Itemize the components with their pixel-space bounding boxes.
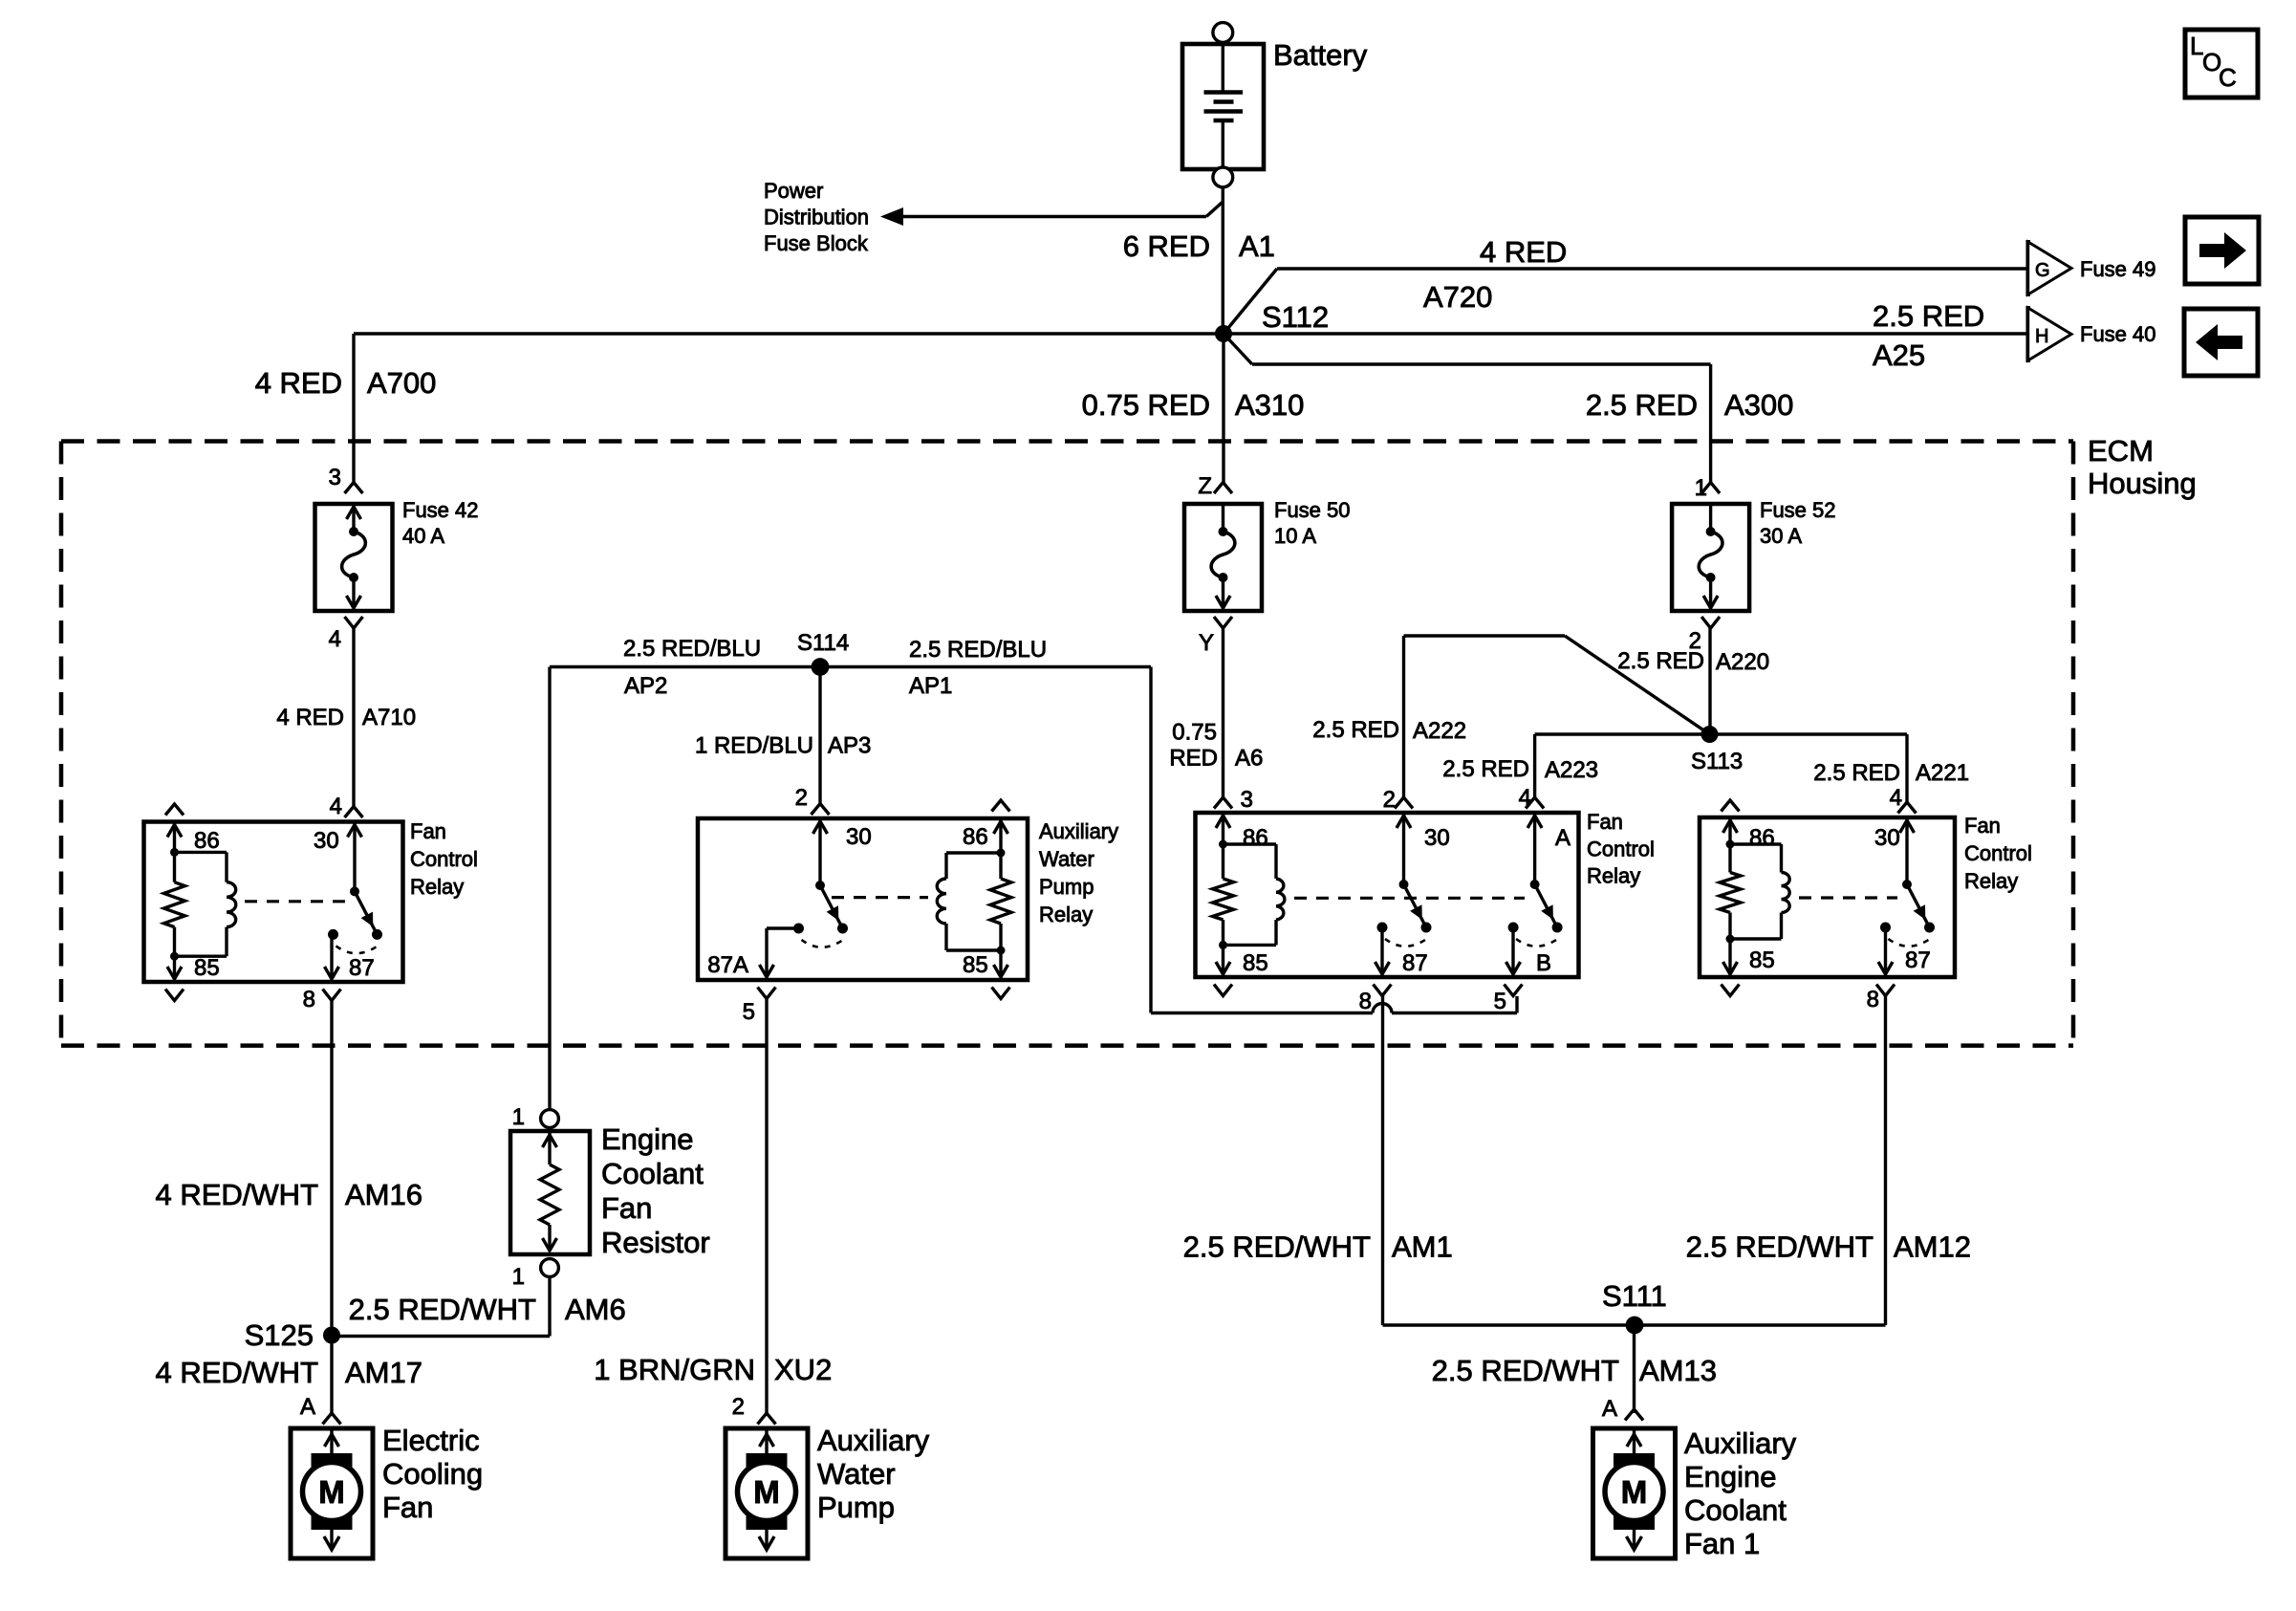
wire 4 RED A710 (352, 628, 355, 807)
label 1 RED/BLU AP3 (695, 733, 871, 759)
svg-text:85: 85 (1243, 950, 1268, 976)
svg-text:Control: Control (1964, 841, 2032, 865)
label 1 BRN/GRN XU2 (594, 1353, 832, 1386)
svg-text:Battery: Battery (1273, 38, 1368, 72)
auxiliary water pump relay label (1039, 819, 1118, 926)
svg-text:1: 1 (512, 1104, 525, 1130)
connector pin 4 of fan control relay 2 (1519, 785, 1544, 811)
fan control relay 1 label (410, 819, 478, 899)
wire 2.5 RED/BLU AP1 (820, 667, 1517, 1013)
svg-text:8: 8 (1359, 989, 1372, 1014)
LOC legend box (2185, 30, 2258, 98)
wire 2.5 RED/BLU AP2 upper (550, 667, 820, 1110)
motor auxiliary engine coolant fan 1 body (1593, 1428, 1676, 1558)
engine coolant fan resistor body (510, 1131, 590, 1254)
svg-text:Y: Y (1199, 630, 1214, 656)
svg-text:3: 3 (1241, 787, 1253, 813)
label 4 RED A710 (276, 705, 416, 730)
fan control relay 3 label (1964, 814, 2032, 893)
fuse F52 element (1699, 506, 1722, 608)
svg-text:Fuse 49: Fuse 49 (2080, 257, 2156, 281)
label 2.5 RED/BLU AP1 (909, 637, 1047, 699)
battery B+ terminal (1213, 23, 1233, 43)
fuse F50 body (1184, 504, 1262, 611)
svg-text:AP1: AP1 (909, 673, 952, 699)
fan control relay 3 case connector marks (1722, 800, 1740, 996)
wire 2.5 RED A300 (1224, 334, 1711, 483)
fuse F42 body (315, 504, 393, 611)
label 4 RED/WHT AM16 (156, 1178, 422, 1211)
svg-text:4 RED: 4 RED (255, 366, 342, 400)
svg-text:AP3: AP3 (828, 733, 871, 759)
wire to power distribution fuse block (880, 187, 1223, 226)
wire 2.5 RED/WHT to S111 (1383, 1323, 1886, 1326)
engine coolant fan resistor element (540, 1133, 559, 1251)
svg-text:2.5 RED: 2.5 RED (1442, 756, 1529, 782)
connector pin 8 of fan control relay 3 (1867, 985, 1895, 1013)
fuse F50 element (1211, 506, 1235, 608)
fan control relay 2 pin 30 wire (1397, 815, 1411, 884)
svg-text:87: 87 (349, 955, 375, 981)
svg-text:6 RED: 6 RED (1123, 229, 1210, 263)
fuse F42 label (402, 498, 479, 548)
wire 6 RED A1 (1222, 202, 1224, 334)
svg-text:A310: A310 (1235, 388, 1304, 422)
svg-text:2: 2 (795, 785, 808, 811)
auxiliary water pump relay case connector marks (992, 800, 1010, 999)
svg-text:87A: 87A (707, 952, 748, 978)
svg-text:AM16: AM16 (345, 1178, 422, 1211)
svg-text:0.75 RED: 0.75 RED (1082, 388, 1210, 422)
svg-text:Fuse 52: Fuse 52 (1760, 498, 1836, 522)
fan control relay 3 pin labels 86 85 (1749, 825, 1775, 973)
connector pin 4 of fan control relay 1 (330, 794, 363, 819)
svg-text:2.5 RED: 2.5 RED (1813, 760, 1900, 786)
svg-text:1 BRN/GRN: 1 BRN/GRN (594, 1353, 755, 1386)
svg-text:2: 2 (732, 1394, 745, 1420)
svg-text:30: 30 (846, 824, 872, 850)
svg-text:AM13: AM13 (1639, 1354, 1717, 1387)
svg-text:Fuse 40: Fuse 40 (2080, 322, 2156, 346)
fan control relay 2 body (1196, 813, 1579, 977)
connector pin 1 of fuse 52 (1695, 475, 1720, 501)
svg-text:AM17: AM17 (345, 1356, 422, 1389)
svg-text:A223: A223 (1545, 757, 1598, 783)
wire 2.5 RED/WHT AM1 (1381, 996, 1384, 1326)
auxiliary water pump relay pin 30 wire (813, 820, 828, 885)
label 0.75 RED A6 (1169, 720, 1263, 772)
svg-text:8: 8 (303, 987, 315, 1012)
fan control relay 2 main switch (1377, 880, 1432, 947)
svg-text:40 A: 40 A (402, 524, 444, 548)
ECM housing boundary (61, 442, 2073, 1046)
svg-text:A: A (300, 1394, 315, 1420)
svg-text:A6: A6 (1235, 746, 1263, 772)
auxiliary water pump relay pin labels 86 85 (963, 824, 988, 978)
fan control relay 1 actuation link (245, 900, 347, 903)
junction S125 (323, 1327, 340, 1344)
fuse F52 label (1760, 498, 1836, 548)
fan control relay 2 second switch (1508, 880, 1563, 947)
fan control relay 2 case connector marks (1214, 985, 1232, 996)
svg-text:A720: A720 (1423, 280, 1492, 314)
svg-text:Electric: Electric (382, 1424, 480, 1457)
fuse F52 body (1672, 504, 1749, 611)
svg-text:Control: Control (1587, 837, 1655, 860)
fan control relay 3 pin 30 wire (1900, 819, 1915, 884)
off-page arrow left (2184, 309, 2258, 376)
svg-text:H: H (2035, 326, 2048, 347)
svg-text:Z: Z (1198, 473, 1212, 499)
wire 2.5 RED A221 (1710, 734, 1908, 802)
svg-text:86: 86 (194, 828, 220, 854)
connector pin 3 of fuse 42 (329, 465, 363, 493)
svg-text:4: 4 (329, 626, 341, 652)
wire 0.75 RED A6 (1222, 628, 1224, 797)
svg-text:A300: A300 (1724, 388, 1793, 422)
off-page arrow right (2185, 217, 2259, 284)
label 2.5 RED/WHT AM13 (1432, 1354, 1717, 1387)
svg-text:Relay: Relay (410, 875, 464, 899)
connector pin 5 of fan control relay 2 (1494, 985, 1523, 1015)
svg-text:4 RED/WHT: 4 RED/WHT (156, 1356, 319, 1389)
wire 2.5 RED/WHT AM6 (332, 1277, 550, 1337)
svg-text:S125: S125 (245, 1318, 314, 1352)
fuse F50 label (1274, 498, 1351, 548)
svg-text:30 A: 30 A (1760, 524, 1802, 548)
motor electric cooling fan symbol (303, 1430, 361, 1550)
connector pin 4 of fan control relay 3 (1890, 785, 1917, 814)
junction S113 (1701, 726, 1719, 743)
fan control relay 1 switch (328, 886, 382, 953)
wire 2.5 RED/WHT AM13 (1633, 1325, 1635, 1413)
svg-text:Fan: Fan (601, 1191, 652, 1225)
svg-text:4: 4 (330, 794, 342, 819)
svg-text:A: A (1555, 825, 1570, 851)
wire 2.5 RED A222 (1404, 636, 1710, 797)
motor electric cooling fan label (382, 1424, 483, 1524)
connector pin 8 of fan control relay 2 (1359, 985, 1392, 1015)
svg-text:S114: S114 (797, 630, 849, 656)
svg-text:2.5 RED/BLU: 2.5 RED/BLU (623, 636, 761, 662)
svg-text:85: 85 (194, 955, 220, 981)
fan control relay 2 pin 87 wire (1375, 927, 1390, 974)
connector triangle G to Fuse 49 (2028, 240, 2071, 296)
connector pin Z of fuse 50 (1198, 473, 1232, 499)
connector pin 4 of fuse 42 (329, 617, 363, 652)
fan control relay 2 actuation link (1294, 897, 1525, 900)
svg-text:Coolant: Coolant (601, 1157, 704, 1190)
wire 1 BRN/GRN XU2 (765, 999, 768, 1414)
svg-text:Fuse Block: Fuse Block (764, 231, 869, 255)
svg-text:A220: A220 (1716, 649, 1769, 675)
fan control relay 1 case connector marks (165, 804, 184, 1001)
svg-text:Distribution: Distribution (764, 206, 869, 229)
motor auxiliary water pump body (726, 1428, 808, 1558)
svg-text:Auxiliary: Auxiliary (817, 1424, 930, 1457)
svg-text:85: 85 (1749, 947, 1775, 973)
fan control relay 2 pin A wire (1527, 815, 1542, 884)
svg-text:86: 86 (963, 824, 988, 850)
label 4 RED/WHT AM17 (156, 1356, 422, 1389)
svg-text:A25: A25 (1873, 338, 1925, 372)
connector pin 5 of auxiliary water pump relay (743, 988, 776, 1026)
wire 4 RED A720 (1224, 269, 2027, 334)
label 4 RED A700 (255, 366, 437, 400)
connector pin 2 of fan control relay 2 (1383, 787, 1413, 813)
svg-text:Engine: Engine (601, 1122, 694, 1156)
svg-text:2.5 RED: 2.5 RED (1617, 648, 1704, 674)
wire 1 RED/BLU AP3 (818, 667, 821, 804)
svg-text:A: A (1602, 1396, 1617, 1422)
wire 4 RED/WHT AM17 (330, 1337, 333, 1414)
label 2.5 RED A25 (1873, 299, 1984, 372)
motor auxiliary water pump symbol (738, 1430, 796, 1550)
svg-text:5: 5 (1494, 989, 1506, 1014)
auxiliary water pump relay switch (793, 881, 848, 947)
ECM housing label (2088, 434, 2197, 500)
svg-text:30: 30 (314, 828, 339, 854)
svg-text:1: 1 (512, 1264, 525, 1290)
label 2.5 RED A223 (1442, 756, 1598, 783)
connector pin A of electric cooling fan (300, 1394, 341, 1425)
svg-text:2.5 RED/WHT: 2.5 RED/WHT (1432, 1354, 1619, 1387)
svg-text:M: M (318, 1474, 345, 1510)
fan control relay 3 pin labels 30 87 (1874, 825, 1931, 973)
svg-text:1 RED/BLU: 1 RED/BLU (695, 733, 813, 759)
connector pin 2 of fuse 52 (1689, 617, 1720, 654)
svg-text:Water: Water (1039, 847, 1094, 871)
svg-text:3: 3 (329, 465, 341, 490)
svg-text:B: B (1536, 950, 1551, 976)
svg-text:RED: RED (1169, 746, 1218, 772)
fan control relay 1 pin 30 wire (348, 824, 362, 892)
auxiliary water pump relay actuation link (832, 896, 928, 899)
motor auxiliary engine coolant fan 1 label (1684, 1426, 1797, 1560)
fan control relay 1 pin labels 86 85 (194, 828, 220, 981)
label 2.5 RED A222 (1312, 717, 1466, 744)
svg-text:M: M (1621, 1474, 1648, 1510)
svg-text:Fan: Fan (1964, 814, 2001, 838)
fan control relay 3 coil (1720, 819, 1789, 974)
svg-text:2.5 RED: 2.5 RED (1873, 299, 1984, 333)
auxiliary water pump relay pin labels 30 87A (707, 824, 871, 978)
svg-text:Pump: Pump (817, 1491, 895, 1524)
svg-text:AM6: AM6 (565, 1293, 626, 1326)
svg-text:Auxiliary: Auxiliary (1039, 819, 1118, 843)
svg-text:Fan: Fan (1587, 810, 1623, 834)
fan control relay 2 coil (1213, 815, 1285, 974)
battery body (1182, 44, 1264, 169)
junction S111 (1626, 1317, 1644, 1335)
svg-text:ECM: ECM (2088, 434, 2154, 468)
connector pin Y of fuse 50 (1199, 617, 1232, 656)
svg-text:Relay: Relay (1587, 864, 1640, 888)
auxiliary water pump relay coil (937, 820, 1011, 977)
svg-text:AM1: AM1 (1392, 1230, 1453, 1264)
svg-text:G: G (2035, 260, 2050, 281)
svg-text:C: C (2219, 63, 2237, 92)
svg-text:4 RED: 4 RED (276, 705, 344, 730)
motor auxiliary water pump label (817, 1424, 930, 1524)
svg-text:87: 87 (1402, 950, 1428, 976)
svg-text:2.5 RED/WHT: 2.5 RED/WHT (1183, 1230, 1371, 1264)
svg-text:Relay: Relay (1964, 869, 2018, 893)
svg-text:2.5 RED/WHT: 2.5 RED/WHT (349, 1293, 536, 1326)
svg-text:AP2: AP2 (624, 673, 667, 699)
motor auxiliary engine coolant fan 1 symbol (1605, 1430, 1663, 1550)
connector triangle H to Fuse 40 (2028, 306, 2071, 362)
wire 2.5 RED A223 (1535, 734, 1710, 797)
label 2.5 RED/WHT AM1 (1183, 1230, 1453, 1264)
fan control relay 3 switch (1880, 880, 1935, 947)
svg-text:Relay: Relay (1039, 903, 1093, 926)
wire 2.5 RED/WHT AM12 (1884, 996, 1887, 1326)
connector pin 1 top of engine coolant fan resistor (512, 1104, 559, 1130)
svg-text:A710: A710 (362, 705, 416, 730)
auxiliary water pump relay pin 87A wire (760, 928, 799, 977)
label 0.75 RED A310 (1082, 388, 1305, 422)
svg-text:S113: S113 (1691, 749, 1743, 774)
engine coolant fan resistor label (601, 1122, 710, 1259)
junction S112 (1215, 325, 1232, 342)
svg-text:Fan 1: Fan 1 (1684, 1527, 1760, 1560)
label 6 RED A1 (1123, 229, 1275, 263)
svg-text:XU2: XU2 (774, 1353, 832, 1386)
svg-text:86: 86 (1749, 825, 1775, 851)
svg-text:85: 85 (963, 952, 988, 978)
fan control relay 2 pin labels 30 87 A B (1402, 825, 1570, 976)
svg-text:Housing: Housing (2088, 467, 2197, 500)
svg-text:30: 30 (1874, 825, 1900, 851)
svg-text:2.5 RED/BLU: 2.5 RED/BLU (909, 637, 1047, 663)
svg-text:Power: Power (764, 179, 823, 203)
fan control relay 2 pin labels 86 85 (1243, 825, 1268, 976)
svg-text:Fan: Fan (410, 819, 446, 843)
svg-text:2: 2 (1383, 787, 1396, 813)
svg-text:Fuse 50: Fuse 50 (1274, 498, 1351, 522)
label 2.5 RED A221 (1813, 760, 1969, 786)
connector pin 2 of auxiliary water pump (732, 1394, 776, 1425)
svg-text:Fan: Fan (382, 1491, 433, 1524)
svg-text:M: M (753, 1474, 780, 1510)
svg-text:2.5 RED/WHT: 2.5 RED/WHT (1686, 1230, 1874, 1264)
svg-text:86: 86 (1243, 825, 1268, 851)
fan control relay 2 pin B wire (1506, 927, 1521, 974)
connector pin 2 of auxiliary water pump relay (795, 785, 830, 815)
svg-text:Cooling: Cooling (382, 1457, 483, 1491)
connector pin A of auxiliary engine coolant fan 1 (1602, 1396, 1643, 1422)
svg-text:Coolant: Coolant (1684, 1493, 1787, 1527)
junction S114 (812, 658, 830, 676)
wire 2.5 RED A25 (1224, 332, 2027, 335)
svg-text:4 RED/WHT: 4 RED/WHT (156, 1178, 319, 1211)
fan control relay 1 pin labels 30 87 (314, 828, 375, 981)
svg-text:Water: Water (817, 1457, 896, 1491)
connector pin 8 of fan control relay 1 (303, 987, 341, 1012)
fuse F42 element (342, 506, 366, 608)
svg-text:A222: A222 (1413, 718, 1466, 744)
wire 4 RED A700 (354, 334, 1224, 482)
svg-text:4 RED: 4 RED (1480, 235, 1567, 269)
svg-text:Auxiliary: Auxiliary (1684, 1426, 1797, 1460)
label 4 RED A720 (1423, 235, 1567, 314)
connector pin 3 of fan control relay 2 (1214, 787, 1253, 813)
fan control relay 3 body (1700, 817, 1955, 977)
svg-text:0.75: 0.75 (1172, 720, 1217, 746)
label 2.5 RED/WHT AM12 (1686, 1230, 1971, 1264)
wire 4 RED/WHT AM16 (330, 1001, 333, 1337)
label 2.5 RED A220 (1617, 648, 1769, 675)
svg-text:Resistor: Resistor (601, 1226, 710, 1259)
label 2.5 RED/BLU AP2 upper (623, 636, 761, 699)
svg-text:10 A: 10 A (1274, 524, 1316, 548)
battery cell plates (1204, 46, 1244, 167)
fan control relay 1 coil (164, 824, 236, 980)
fan control relay 3 actuation link (1799, 896, 1897, 899)
label 2.5 RED/WHT AM6 (349, 1293, 626, 1326)
svg-text:Fuse 42: Fuse 42 (402, 498, 479, 522)
svg-text:Pump: Pump (1039, 875, 1094, 899)
svg-text:S112: S112 (1262, 300, 1329, 334)
svg-text:Engine: Engine (1684, 1460, 1777, 1493)
svg-text:AM12: AM12 (1894, 1230, 1971, 1264)
svg-text:A221: A221 (1916, 760, 1969, 786)
fan control relay 3 pin 87 wire (1878, 927, 1893, 974)
label 2.5 RED A300 (1586, 388, 1794, 422)
fan control relay 2 label (1587, 810, 1655, 888)
power distribution fuse block label (764, 179, 869, 255)
svg-text:8: 8 (1867, 987, 1879, 1012)
auxiliary water pump relay body (698, 818, 1028, 980)
svg-text:S111: S111 (1602, 1279, 1667, 1313)
fan control relay 1 body (144, 822, 403, 983)
motor electric cooling fan body (291, 1428, 373, 1558)
svg-text:4: 4 (1890, 785, 1902, 811)
svg-text:A1: A1 (1239, 229, 1275, 263)
battery negative terminal (1213, 167, 1233, 187)
svg-text:87: 87 (1905, 947, 1931, 973)
fan control relay 1 pin 87 wire (325, 934, 339, 979)
svg-text:Control: Control (410, 847, 478, 871)
wire 0.75 RED A310 (1222, 334, 1224, 483)
connector pin 1 bottom of engine coolant fan resistor (512, 1259, 559, 1290)
svg-text:2.5 RED: 2.5 RED (1586, 388, 1698, 422)
svg-text:30: 30 (1424, 825, 1450, 851)
wire 2.5 RED A220 (1708, 628, 1711, 734)
svg-text:A700: A700 (367, 366, 436, 400)
svg-text:5: 5 (743, 999, 755, 1025)
svg-text:2.5 RED: 2.5 RED (1312, 717, 1399, 743)
